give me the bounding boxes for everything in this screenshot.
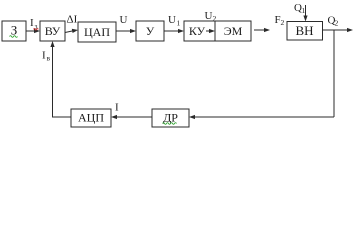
svg-text:в: в (47, 54, 51, 63)
svg-text:КУ: КУ (189, 24, 206, 38)
svg-text:U: U (168, 14, 176, 26)
wire АЦП to left corner (52, 116, 71, 118)
wire feedback up to ВУ (52, 45, 54, 117)
block АЦП (ADC) (71, 109, 111, 127)
wire ДР to АЦП (115, 116, 152, 118)
svg-text:I: I (30, 17, 34, 29)
arrowhead into ДР (189, 115, 195, 119)
wire ВУ to ЦАП (slanted) (65, 31, 74, 33)
arrowhead into ЦАП (72, 29, 78, 33)
arrowhead at shared edge (209, 29, 215, 33)
svg-text:ЦАП: ЦАП (84, 25, 110, 39)
arrowhead up into ВУ (50, 41, 54, 47)
green squiggle under ДР (163, 123, 177, 125)
svg-text:U: U (120, 14, 128, 26)
block ЭМ (electric motor) (215, 21, 251, 41)
svg-text:ВН: ВН (295, 23, 313, 38)
svg-text:У: У (146, 24, 155, 38)
arrowhead into У (130, 29, 136, 33)
wire feedback drop on right (333, 30, 335, 117)
wire ЦАП to У (116, 30, 132, 32)
svg-text:ΔI: ΔI (67, 14, 78, 26)
svg-text:U: U (205, 10, 213, 22)
arrowhead into КУ (178, 29, 184, 33)
arrowhead into ВУ (34, 29, 40, 33)
svg-text:I: I (42, 50, 46, 62)
wire ЭМ toward ВН (detached arrow) (254, 29, 266, 31)
arrowhead output right (347, 28, 353, 32)
arrowhead of detached arrow (264, 28, 270, 32)
svg-text:З: З (11, 23, 18, 38)
wire КУ to ЭМ (internal arrow) (206, 30, 211, 32)
svg-text:ВУ: ВУ (45, 24, 61, 38)
block ВУ (computing unit) (40, 21, 65, 41)
wire Q1 input from top (305, 5, 307, 18)
svg-text:1: 1 (302, 6, 306, 15)
block У (amplifier) (136, 21, 164, 41)
svg-text:I: I (115, 102, 119, 114)
block КУ (184, 21, 215, 41)
wire ВН output Q2 (323, 29, 350, 31)
wire З to ВУ (26, 30, 36, 32)
block ВН (fan) (287, 22, 323, 41)
svg-text:АЦП: АЦП (78, 111, 104, 125)
svg-text:2: 2 (335, 19, 339, 28)
svg-text:2: 2 (281, 18, 285, 27)
svg-text:1: 1 (177, 19, 181, 28)
svg-text:ЭМ: ЭМ (224, 24, 243, 38)
block ДР (throttle) (152, 109, 189, 127)
arrowhead into АЦП (111, 115, 117, 119)
arrowhead down into ВН (303, 16, 307, 22)
block З (setpoint) (2, 21, 26, 41)
wire feedback bottom to ДР (193, 116, 334, 118)
green squiggle under З (10, 36, 18, 38)
wire У to КУ (164, 30, 180, 32)
block ЦАП (DAC) (78, 22, 116, 42)
red squiggle under з (34, 29, 39, 30)
